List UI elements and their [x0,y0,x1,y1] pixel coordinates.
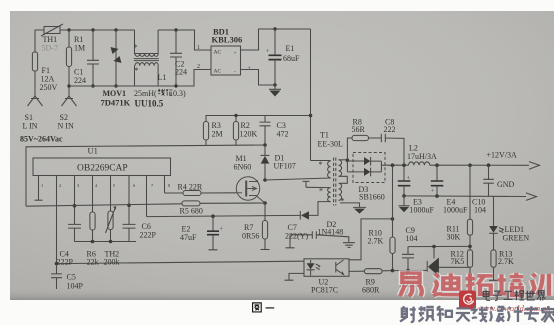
svg-text:222P: 222P [140,231,157,240]
wire F1 to S1 [34,71,36,96]
D3 anode tie [347,160,364,172]
labels clamp area [212,118,396,172]
svg-text:OB2269CAP: OB2269CAP [77,164,128,174]
svg-text:*: * [135,66,139,75]
svg-text:47uF: 47uF [180,233,197,242]
svg-text:5D-7: 5D-7 [42,44,58,53]
svg-text:U1: U1 [88,146,98,156]
T1 secondary winding [339,160,342,177]
svg-text:+: + [234,51,237,57]
svg-text:25mH(: 25mH( [134,89,157,98]
svg-text:224: 224 [175,68,187,77]
svg-text:1000uF: 1000uF [410,206,435,215]
capacitor E1 [274,29,276,55]
caption 图一 [253,303,275,312]
capacitor C1 [87,30,99,86]
pin 7 [146,176,148,217]
svg-text:1M: 1M [74,44,85,53]
opto U2 box [304,259,349,277]
labels input section [23,35,301,131]
terminal S1 [28,96,43,106]
wire opto bottom rail [393,269,428,271]
node HV bus [309,114,313,118]
svg-text:SB1660: SB1660 [359,193,385,202]
svg-text:17uH/3A: 17uH/3A [407,152,437,161]
resistor R10 [390,237,395,254]
resistor R9 [364,269,382,274]
watermark eeworld CJK [483,290,545,300]
glyph tuo [466,273,493,295]
opto pin emitter wire [349,270,364,272]
glyph xian [158,89,165,96]
D3 cathode tie [371,161,393,172]
glyph pin [418,306,433,321]
svg-text:*: * [319,160,323,169]
svg-text:R4 22R: R4 22R [178,183,203,192]
node C1 top [91,28,94,31]
svg-text:222(Y): 222(Y) [285,232,308,241]
wire +12V rail [393,164,530,166]
diode D2 [299,211,301,220]
glyph tuo [466,273,493,295]
ground E3 [399,196,410,206]
svg-text:R5 680: R5 680 [180,207,203,216]
glyph dian [483,290,490,300]
wire timing caps join [75,241,137,243]
wire secondary top [339,159,348,161]
pin 3 [74,176,76,225]
capacitor E3 [403,165,405,180]
svg-text:224: 224 [74,76,86,85]
glyph jia [541,306,554,322]
D3 dashed box [353,153,385,183]
glyph jie [537,291,546,301]
wire bridge minus out [241,70,276,86]
node pin3 [73,204,77,208]
glyph cheng [514,290,524,300]
node C2 top [174,28,177,31]
watermark rf slogan [400,306,554,322]
choke L1 [134,30,159,86]
svg-text:KBL306: KBL306 [212,35,243,45]
node E1 top [273,27,276,30]
node MOV1 top [114,28,117,31]
glyph di [433,273,460,295]
glyph tu [253,303,262,312]
svg-text:L IN: L IN [23,122,38,131]
watermark eeworld logo [459,291,476,310]
svg-text:1000uF: 1000uF [443,206,468,215]
resistor R7 [264,203,266,249]
gnd bar R7 [261,249,270,251]
node C10 top [487,163,491,167]
svg-text:6N60: 6N60 [234,163,252,172]
node pin6 [127,203,131,207]
snubber R8 C8 [347,138,352,160]
transformer T1 primary winding [311,160,331,162]
capacitor C9 [402,247,414,271]
svg-text:GND: GND [497,180,515,189]
svg-text:UF107: UF107 [274,162,296,171]
glyph shehm [490,307,504,322]
svg-text:85V~264Vac: 85V~264Vac [20,135,63,144]
glyph yi [400,273,422,296]
fuse F1 [32,52,37,71]
resistor R4 [183,191,201,196]
svg-text:UU10.5: UU10.5 [135,99,164,109]
node E3 top [402,163,406,167]
secondary bottom ground [340,203,366,208]
mosfet M1 [236,177,265,203]
node TH2 bottom [109,240,113,244]
svg-text:68uF: 68uF [283,54,300,63]
capacitor C3 [260,116,271,146]
shunt U3 AZ431 [433,247,435,259]
node source [263,201,267,205]
svg-text:+12V/3A: +12V/3A [487,151,518,160]
opto collector wire [349,219,393,260]
glyph gong [504,291,513,299]
wire HV bus horizontal [206,116,311,122]
capacitor C4 [68,224,81,241]
glyph pei [497,273,523,295]
svg-text:C5: C5 [67,273,76,282]
wire choke to bridge top [158,30,211,50]
capacitor C6 [123,224,136,241]
diode D3 top [364,157,370,165]
svg-text:200k: 200k [104,258,120,267]
diode D3 bottom [364,168,370,176]
node bottom rail C1 [91,84,94,87]
resistor R2 [233,122,238,141]
wire VCC line [147,215,301,216]
svg-text:L1: L1 [158,73,167,82]
svg-text:E1: E1 [286,44,295,53]
node R1 top [67,28,70,31]
svg-text:AC: AC [214,69,222,75]
varistor MOV1 [115,30,117,86]
glyph di [433,273,460,295]
node C2 bottom [174,84,177,87]
capacitor E2 [212,216,214,231]
pin 6 [128,176,130,225]
glyph zhuan [524,306,539,322]
svg-text:1N4148: 1N4148 [318,228,344,237]
node bottom rail MOV1 [114,84,117,87]
glyph yi [400,273,422,296]
labels bottom U1 parts [57,185,385,295]
pin 8 [164,176,166,194]
bridge BD1 [211,46,241,75]
capacitor C10 [483,165,494,196]
svg-text:22k: 22k [87,258,99,267]
svg-text:2: 2 [197,64,200,70]
node E1 bottom [273,83,276,86]
wire clamp return loop [26,145,265,206]
glyph she [400,306,416,322]
node clamp [263,143,267,147]
pin 5 [110,176,112,212]
svg-text:8: 8 [168,183,170,188]
node gnd rail E3 [402,194,406,198]
node E2 [211,214,215,218]
svg-text:*: * [341,197,345,206]
svg-text:AC: AC [214,50,222,56]
pin 1 [35,176,43,201]
svg-text:2: 2 [59,183,61,188]
svg-text:PC817C: PC817C [311,286,338,295]
glyph yi1 [266,307,275,309]
svg-text:5: 5 [113,183,115,188]
Y-cap C7 [290,231,349,242]
capacitor C5 [51,264,62,289]
svg-text:7D471K: 7D471K [101,98,131,108]
arrow +12V [529,162,540,170]
glyph xun [531,274,554,296]
svg-text:1: 1 [197,45,200,51]
feedback node column [391,217,395,221]
svg-text:250V: 250V [40,83,58,92]
wire U1 gnd rail to opto [57,261,305,263]
svg-text:*: * [319,187,323,196]
glyph pei [497,273,523,295]
svg-text:T1: T1 [320,131,329,140]
svg-text:56R: 56R [352,125,366,134]
svg-text:472: 472 [277,130,289,139]
diode D1 [264,145,266,180]
capacitor E4 [436,165,438,180]
resistor R6 [90,212,95,230]
svg-text:0.3): 0.3) [173,89,186,98]
thermistor TH2 [108,211,113,230]
ground C7 [343,243,355,248]
svg-text:30K: 30K [447,233,461,242]
wire S2 drop [68,86,70,96]
LED1 [493,197,495,226]
U1 pin numbers [41,183,170,188]
wire drain to primary [265,178,331,180]
node R2 top [234,114,237,117]
node bottom rail S2 [67,84,70,87]
resistor R11 [469,165,471,219]
resistor R5 [182,201,200,206]
glyph he [437,306,452,321]
node drain [263,178,267,182]
svg-text:222P: 222P [57,258,74,267]
T1 aux winding [306,186,331,188]
glyph jing [166,89,172,95]
glyph shi4 [525,291,535,300]
IC U1 box [33,158,171,176]
svg-text:104: 104 [406,234,418,243]
ground primary [269,85,281,89]
svg-text:222: 222 [384,125,396,134]
resistor R1 [68,30,70,86]
svg-text:3: 3 [77,183,79,188]
aux top bar terminal [303,181,310,187]
svg-text:2.7K: 2.7K [368,237,384,246]
labels secondary [368,144,530,290]
glyph ji [508,306,522,322]
node R11 top [468,163,472,167]
pin 2 [56,176,58,264]
wire HV bus vertical [310,29,312,161]
wire sense R5 line [26,203,265,206]
label L1 CJK 线径 [158,89,172,96]
node C5 [55,262,59,266]
wire bridge plus out [241,29,311,50]
glyph tian [456,308,470,321]
resistor R12 [467,250,472,267]
svg-text:EE-30L: EE-30L [318,140,343,149]
svg-text:*: * [134,43,138,52]
svg-text:7K5: 7K5 [451,257,465,266]
svg-text:120K: 120K [240,130,258,139]
svg-text:680R: 680R [362,286,380,295]
node E4 top [435,163,439,167]
svg-text:0R56: 0R56 [242,232,259,241]
pin 4 [92,176,94,213]
glyph zi [493,291,502,300]
wire GND rail [404,195,526,198]
resistor R3 [203,122,208,141]
wire ref line [408,245,470,247]
wire top AC rail L line [35,30,135,52]
svg-text:104: 104 [474,206,486,215]
glyph xian [472,306,487,321]
svg-text:-: - [234,69,236,75]
node L2 left [391,163,395,167]
node R6 bottom [91,240,95,244]
svg-text:104P: 104P [67,282,84,291]
arrow GND [526,193,537,201]
resistor R13 [493,233,495,250]
capacitor C2 [170,30,182,86]
thermistor TH1 [44,27,60,34]
svg-text:GREEN: GREEN [503,234,530,243]
svg-text:1: 1 [41,183,43,188]
opto LED [307,263,315,269]
svg-text:2M: 2M [212,130,223,139]
T1 core [334,158,336,206]
glyph xun [531,274,554,296]
watermark yiditu red big [400,273,554,296]
terminal S2 [62,96,77,106]
wire bottom AC rail N line [69,70,211,87]
opto pin cathode wire [285,273,305,280]
opto transistor [336,260,344,275]
inductor L2 [409,162,430,165]
svg-text:N IN: N IN [58,122,74,131]
wire gate R4 line [165,192,237,194]
svg-text:2.7K: 2.7K [498,257,514,266]
